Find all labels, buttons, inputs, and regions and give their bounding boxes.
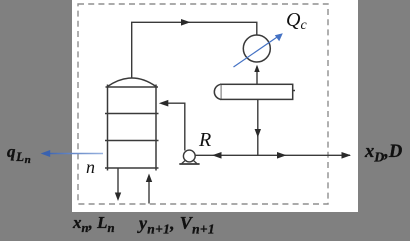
column left wall (107, 85, 109, 171)
wire: vapor return up arrow (148, 177, 150, 204)
arrowhead on vapor line (181, 19, 191, 26)
label n (86, 158, 95, 176)
label R (199, 130, 211, 150)
arrowhead toward pump (left) (212, 152, 222, 159)
dashed system boundary (78, 4, 328, 204)
wire: distillate / reflux header (195, 154, 350, 156)
arrowhead into column (159, 100, 169, 107)
label xD,D (365, 143, 402, 162)
tray 1 (105, 113, 159, 115)
label qLn (7, 143, 31, 160)
white panel (72, 0, 358, 212)
label xn,Ln (73, 214, 115, 231)
wire: pump discharge up and into column (162, 103, 185, 150)
label yn+1,Vn+1 (139, 214, 215, 232)
condenser U1 (243, 35, 270, 62)
wire: bottoms liquid down arrow (117, 169, 119, 198)
column C1 shell (105, 78, 159, 171)
column top head line (106, 86, 159, 88)
label Qc (286, 10, 307, 30)
column dome (108, 78, 157, 87)
column right wall (155, 85, 157, 171)
reflux drum V1 (221, 84, 293, 99)
wire: drum to distillate line with down arrow (257, 99, 259, 155)
tray 2 (105, 140, 159, 142)
column bottom line (105, 167, 159, 169)
arrowhead distillate exit (342, 152, 352, 159)
blue control arrow through condenser (234, 36, 280, 67)
wire: condenser to drum with up arrow (256, 67, 258, 85)
wire: overhead vapor line (132, 22, 257, 77)
drum right nub (293, 90, 295, 92)
drum left dished head (214, 84, 220, 99)
arrowhead mid right (277, 152, 287, 159)
pump P1 (183, 150, 195, 162)
